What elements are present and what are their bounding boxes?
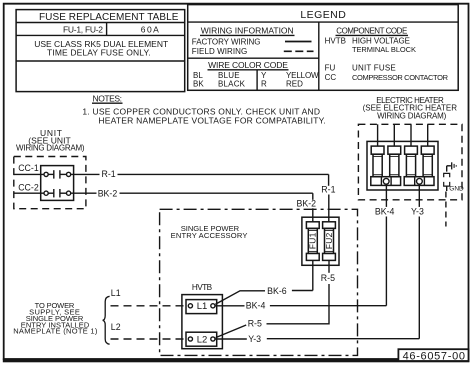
svg-text:BLUE: BLUE: [218, 71, 240, 80]
fuse FU2: [323, 222, 336, 261]
svg-text:YELLOW: YELLOW: [286, 71, 319, 80]
heater terminal strip right: [404, 177, 434, 186]
to power supply note: [13, 301, 98, 336]
svg-text:46-6057-00: 46-6057-00: [403, 350, 465, 362]
ground: [444, 162, 464, 226]
svg-text:LEGEND: LEGEND: [300, 9, 346, 21]
svg-text:WIRING INFORMATION: WIRING INFORMATION: [201, 25, 294, 35]
heater element 3: [405, 124, 418, 176]
svg-text:BL: BL: [193, 71, 203, 80]
svg-text:FIELD WIRING: FIELD WIRING: [192, 47, 247, 56]
heater element 4: [421, 124, 434, 176]
svg-text:CC-1: CC-1: [18, 163, 39, 173]
svg-text:WIRE COLOR CODE: WIRE COLOR CODE: [208, 60, 288, 70]
svg-text:L2: L2: [197, 335, 208, 346]
svg-text:CC: CC: [325, 73, 337, 82]
wiring information legend: [188, 25, 319, 58]
wire R-5: [216, 260, 335, 337]
legend box: [188, 5, 459, 91]
svg-text:FACTORY WIRING: FACTORY WIRING: [192, 37, 261, 46]
svg-text:L1: L1: [197, 301, 208, 312]
svg-text:FU1: FU1: [308, 232, 318, 249]
wire L1 (field): [111, 288, 189, 306]
svg-text:BK-2: BK-2: [297, 199, 317, 209]
terminal L1: [186, 300, 217, 314]
wire R-1: [71, 169, 336, 222]
fuse block: [302, 217, 339, 265]
svg-text:RED: RED: [286, 80, 303, 89]
svg-text:HEATER NAMEPLATE VOLTAGE FOR C: HEATER NAMEPLATE VOLTAGE FOR COMPATABILI…: [98, 115, 325, 125]
svg-text:CC-2: CC-2: [18, 182, 39, 192]
svg-text:COMPRESSOR CONTACTOR: COMPRESSOR CONTACTOR: [352, 73, 449, 82]
svg-text:TIME DELAY FUSE ONLY.: TIME DELAY FUSE ONLY.: [47, 47, 151, 57]
heater terminal strip left: [371, 177, 401, 186]
wire BK-6: [215, 260, 312, 304]
svg-text:BK-2: BK-2: [98, 189, 118, 199]
wire color code legend: [193, 60, 319, 91]
svg-text:L1: L1: [111, 288, 121, 298]
svg-text:FU: FU: [325, 64, 336, 73]
svg-text:GND: GND: [449, 185, 464, 192]
svg-text:R-1: R-1: [321, 185, 335, 195]
svg-text:FUSE REPLACEMENT TABLE: FUSE REPLACEMENT TABLE: [39, 12, 179, 23]
svg-text:HVTB: HVTB: [325, 36, 346, 45]
heater element 1: [371, 124, 384, 176]
wire BK-2: [71, 189, 316, 222]
svg-text:R-1: R-1: [102, 169, 116, 179]
notes: [82, 93, 325, 125]
svg-text:TERMINAL BLOCK: TERMINAL BLOCK: [352, 45, 416, 54]
svg-text:COMPONENT CODE: COMPONENT CODE: [336, 26, 407, 35]
svg-text:FU2: FU2: [324, 232, 334, 249]
wire BK-4: [215, 184, 395, 310]
svg-text:R-5: R-5: [321, 273, 335, 283]
svg-text:BK-4: BK-4: [375, 206, 395, 216]
contactor CC-1: [14, 163, 71, 179]
svg-text:ENTRY ACCESSORY: ENTRY ACCESSORY: [171, 231, 248, 240]
heater element 2: [388, 124, 401, 176]
electric heater box: [358, 96, 462, 200]
svg-text:WIRING DIAGRAM): WIRING DIAGRAM): [377, 112, 447, 121]
wire L2 (field): [111, 322, 189, 339]
svg-text:60A: 60A: [141, 24, 159, 34]
fuse FU1: [306, 222, 319, 261]
svg-text:Y: Y: [261, 71, 267, 80]
svg-text:R-5: R-5: [248, 319, 262, 329]
unit (see unit wiring diagram) box: [14, 128, 86, 209]
fuse replacement table: [16, 10, 185, 92]
svg-text:L2: L2: [111, 322, 121, 332]
drawing number 46-6057-00: [398, 349, 468, 362]
svg-text:BK-4: BK-4: [246, 301, 266, 311]
wire Y-3: [215, 184, 424, 344]
svg-text:NAMEPLATE (NOTE 1): NAMEPLATE (NOTE 1): [13, 327, 98, 336]
svg-text:HVTB: HVTB: [192, 283, 213, 292]
terminal block HVTB: [182, 283, 223, 349]
svg-text:BK: BK: [193, 80, 204, 89]
svg-text:BLACK: BLACK: [218, 80, 246, 89]
brace: [103, 296, 110, 344]
terminal L2: [186, 332, 217, 346]
contactor CC-2: [14, 182, 71, 197]
component code legend: [325, 26, 449, 81]
svg-text:NOTES:: NOTES:: [93, 93, 123, 103]
single power entry accessory box: [160, 209, 358, 355]
svg-text:BK-6: BK-6: [267, 286, 287, 296]
svg-text:Y-3: Y-3: [411, 206, 424, 216]
svg-text:UNIT FUSE: UNIT FUSE: [352, 64, 396, 73]
svg-text:WIRING DIAGRAM): WIRING DIAGRAM): [16, 143, 85, 152]
svg-text:R: R: [261, 80, 267, 89]
svg-text:Y-3: Y-3: [248, 334, 261, 344]
svg-text:FU-1, FU-2: FU-1, FU-2: [63, 24, 103, 34]
